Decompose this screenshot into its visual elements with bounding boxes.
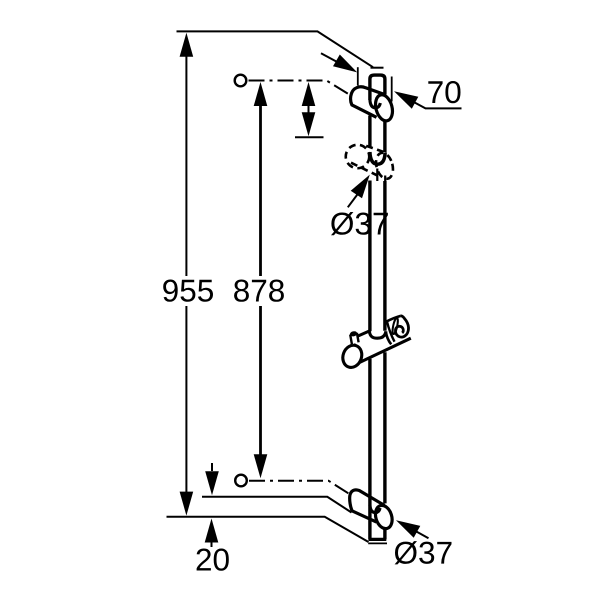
dim 955 arrow up	[180, 33, 194, 57]
small offset dim double arrow	[308, 100, 310, 118]
wall bottom lower line	[167, 517, 369, 542]
bottom bracket collar	[370, 505, 380, 513]
small offset dim tick	[295, 136, 324, 138]
dim 70 extension line left	[357, 67, 359, 85]
holder bottom edge	[355, 338, 411, 364]
slider holder body	[356, 316, 411, 368]
label 878	[234, 280, 284, 302]
wall top line	[177, 31, 374, 67]
label 70	[428, 81, 460, 103]
dim diameter 37 top leader	[348, 193, 359, 207]
top bracket body	[351, 87, 386, 117]
dim 878 arrow down	[254, 454, 268, 478]
center line top	[249, 81, 353, 97]
rail end arc in ghost	[370, 152, 385, 164]
dim diameter 37 bottom leader	[415, 531, 429, 539]
datum circle top	[235, 75, 247, 87]
label diameter 37 top	[331, 212, 388, 235]
bottom bracket body	[350, 490, 385, 522]
center line bottom	[249, 481, 352, 496]
holder collar arc	[369, 331, 386, 338]
top bracket collar	[370, 100, 380, 108]
dim 878 line	[259, 105, 262, 455]
dim 20 lower arrow	[211, 542, 213, 547]
rail top cap	[370, 75, 385, 100]
rail stubs in ghost	[377, 169, 385, 182]
holder hook	[386, 316, 409, 344]
ghost bracket dashed	[346, 145, 396, 181]
wall plate top stub	[371, 67, 384, 69]
rail left line segments	[370, 116, 385, 540]
holder top edge	[353, 331, 369, 345]
dim 70 extension line right	[391, 77, 393, 102]
dim 70 left pointer	[321, 53, 340, 63]
label diameter 37 bottom	[395, 541, 452, 564]
dim 70 right pointer	[410, 100, 462, 108]
wall bottom upper line	[202, 497, 352, 513]
datum circle bottom	[235, 475, 247, 487]
label 20	[197, 549, 229, 571]
holder face	[340, 343, 365, 371]
top bracket face	[373, 93, 395, 123]
label 955	[163, 280, 213, 302]
rail bottom end line	[368, 542, 387, 544]
dim 955 line	[185, 56, 187, 492]
dim 955 arrow down	[180, 492, 194, 516]
rail bottom cap	[369, 538, 387, 541]
dim 878 arrow up	[254, 82, 268, 106]
holder knob	[349, 330, 358, 344]
dim 20 upper arrow	[211, 463, 213, 471]
bottom bracket face	[373, 503, 395, 530]
